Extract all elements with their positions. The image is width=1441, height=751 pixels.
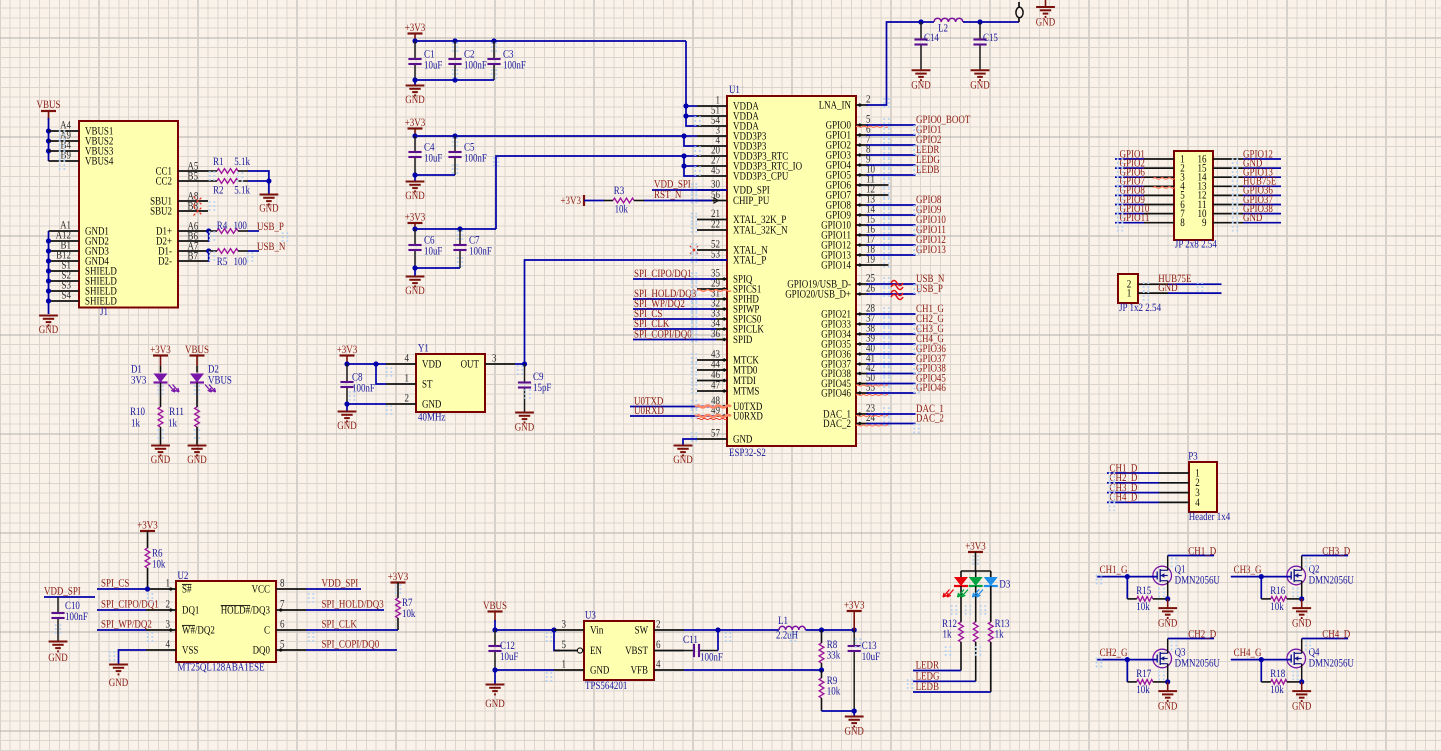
svg-text:CH4_G: CH4_G (1234, 647, 1262, 659)
svg-text:CH3_G: CH3_G (1234, 564, 1262, 576)
svg-text:D2-: D2- (158, 256, 172, 268)
oscillator Y1 body (416, 343, 485, 424)
svg-text:5.1k: 5.1k (234, 156, 250, 168)
resistor R10 (130, 383, 163, 446)
wire net HUB75E JP1x2 pin 2 (1127, 273, 1222, 290)
wire net CH2_G (867, 313, 944, 325)
svg-text:10k: 10k (827, 686, 841, 698)
wire net GPIO11 JP2x8 pin 8 (1115, 212, 1185, 229)
svg-text:DMN2056U: DMN2056U (1175, 658, 1220, 670)
wire net GPIO11 (867, 224, 946, 236)
svg-text:GND: GND (1292, 618, 1311, 630)
net label USB_N (257, 241, 285, 253)
svg-text:GPIO46: GPIO46 (916, 382, 946, 394)
svg-text:SPI_HOLD/DQ3: SPI_HOLD/DQ3 (322, 599, 385, 611)
svg-text:1: 1 (1127, 287, 1132, 299)
svg-text:R10: R10 (130, 406, 145, 418)
wire net GPIO46 (867, 382, 947, 394)
svg-text:SPI_CLK: SPI_CLK (322, 619, 357, 631)
svg-text:B9: B9 (61, 150, 72, 162)
ground GND below Q1 (1153, 556, 1220, 599)
squiggle GPIO45 (856, 385, 889, 386)
svg-text:VBUS4: VBUS4 (85, 156, 114, 168)
capacitor C2 (448, 41, 487, 80)
wire VDD3P3_RTC rail (496, 156, 684, 229)
svg-text:R17: R17 (1136, 668, 1151, 680)
resistor R5 (209, 249, 259, 268)
wire net GPIO1 JP2x8 pin 1 (1115, 148, 1185, 165)
squiggle GPIO46 (856, 394, 889, 395)
ground GND below C10 (48, 642, 67, 665)
svg-text:1: 1 (562, 658, 567, 670)
wire net GPIO12 JP2x8 pin 16 (1198, 148, 1282, 165)
compile squiggle SPICS1 (697, 290, 731, 292)
resistor R3 (584, 185, 712, 216)
svg-text:VBUS: VBUS (37, 99, 61, 111)
svg-text:GND: GND (405, 285, 424, 297)
svg-text:ST: ST (422, 379, 433, 391)
svg-text:VDD3P3_CPU: VDD3P3_CPU (733, 171, 788, 183)
wire +3V3 rail C4-C5 (412, 129, 684, 139)
svg-text:CHIP_PU: CHIP_PU (733, 195, 769, 207)
svg-text:Header 1x4: Header 1x4 (1189, 511, 1231, 523)
wire net SPI_COPI/DQ0 at U2 (306, 639, 397, 651)
svg-text:10uF: 10uF (500, 651, 518, 663)
wire VBUS bus to J1 VBUS pins (46, 118, 51, 161)
svg-text:CH1_D: CH1_D (1188, 546, 1216, 558)
wire net DAC_1 (867, 403, 944, 415)
svg-text:GND: GND (1036, 17, 1055, 29)
svg-text:GND: GND (1158, 618, 1177, 630)
capacitor C5 (448, 136, 487, 175)
svg-text:3: 3 (166, 619, 171, 631)
wire net CH4_D P3 pin 4 (1107, 492, 1200, 509)
power +3V3 above D3 (965, 541, 986, 572)
svg-text:U0RXD: U0RXD (733, 411, 763, 423)
svg-text:R2: R2 (213, 185, 224, 197)
wire output bottom rail (822, 708, 857, 713)
svg-text:GND: GND (48, 652, 67, 664)
svg-text:GND: GND (109, 677, 128, 689)
wire net SPI_COPI/DQ0 (633, 329, 716, 341)
svg-text:CH1_G: CH1_G (1100, 564, 1128, 576)
wire net GPIO10 JP2x8 pin 7 (1115, 203, 1185, 220)
svg-text:+3V3: +3V3 (844, 600, 865, 612)
svg-text:RST_N: RST_N (654, 189, 681, 201)
resistor D3 middle (973, 622, 978, 642)
net label VDD_SPI at C10 (44, 586, 95, 598)
wire net GND JP1x2 pin 1 (1127, 282, 1222, 299)
svg-text:+3V3: +3V3 (405, 212, 426, 224)
power +3V3 above R6 (137, 520, 158, 532)
pin decoration CHIP_PU (714, 198, 719, 203)
capacitor C8 (340, 364, 375, 404)
power +3V3 above C4 (405, 117, 426, 129)
svg-text:6: 6 (656, 639, 661, 651)
connector JP2x8 body (1174, 151, 1217, 250)
svg-text:JP 1x2 2.54: JP 1x2 2.54 (1119, 302, 1161, 314)
svg-text:100nF: 100nF (464, 153, 487, 165)
svg-text:LNA_IN: LNA_IN (819, 100, 851, 112)
svg-text:100nF: 100nF (464, 60, 487, 72)
ground GND below R2 (259, 181, 278, 215)
svg-text:R3: R3 (614, 185, 625, 197)
svg-text:J1: J1 (100, 306, 108, 318)
connector P3 body (1188, 451, 1230, 524)
svg-text:+3V3: +3V3 (561, 195, 582, 207)
capacitor C4 (408, 136, 442, 175)
svg-text:100: 100 (234, 220, 248, 232)
svg-text:10uF: 10uF (424, 153, 442, 165)
wire U1 unconnected pin y=195 (886, 194, 889, 196)
svg-text:10uF: 10uF (424, 246, 442, 258)
led D3 red (943, 571, 968, 622)
wire C6-C7 bottom rail (412, 265, 460, 270)
wire net GPIO9 (867, 204, 942, 216)
wire VDD3P3_RTC pins (681, 153, 697, 176)
svg-text:MTMS: MTMS (733, 386, 759, 398)
capacitor C3 (487, 41, 526, 80)
svg-text:GND: GND (1158, 282, 1177, 294)
ground GND below C12 (485, 670, 504, 710)
svg-text:SPI_COPI/DQ0: SPI_COPI/DQ0 (634, 329, 692, 341)
svg-text:1: 1 (166, 578, 171, 590)
wire net CH3_D P3 pin 3 (1107, 482, 1200, 499)
wire net CH3_G (867, 323, 944, 335)
marker dots clusters (55, 42, 1311, 689)
power +3V3 at R3 (561, 195, 585, 207)
ground GND top right (1036, 0, 1055, 29)
svg-text:XTAL_32K_N: XTAL_32K_N (733, 225, 788, 237)
squiggle DAC_1 (856, 415, 889, 416)
svg-text:R16: R16 (1270, 585, 1285, 597)
svg-text:CC2: CC2 (156, 176, 172, 188)
svg-text:HOLD#/DQ3: HOLD#/DQ3 (221, 605, 271, 617)
ic U2 MT25QL128 body (176, 570, 276, 674)
svg-text:VBUS: VBUS (208, 375, 232, 387)
capacitor C13 (848, 630, 881, 711)
ground GND below C4 (405, 175, 424, 202)
svg-text:+3V3: +3V3 (337, 344, 358, 356)
svg-text:SHIELD: SHIELD (85, 296, 117, 308)
svg-text:5.1k: 5.1k (234, 185, 250, 197)
capacitor C7 (453, 229, 492, 268)
svg-text:GND: GND (1243, 212, 1262, 224)
svg-text:VBUS: VBUS (483, 600, 507, 612)
svg-text:22: 22 (711, 219, 720, 231)
svg-text:4: 4 (656, 658, 661, 670)
wire C4-C5 bottom rail (412, 172, 455, 177)
wire net SPI_CS (633, 308, 716, 320)
svg-text:+3V3: +3V3 (405, 22, 426, 34)
svg-text:100nF: 100nF (700, 652, 723, 664)
wire net GPIO38 (867, 363, 947, 375)
resistor R2 (208, 178, 272, 196)
svg-text:+3V3: +3V3 (137, 520, 158, 532)
wire net CH1_D P3 pin 1 (1107, 462, 1200, 479)
svg-text:P3: P3 (1188, 451, 1198, 463)
svg-text:2: 2 (866, 94, 871, 106)
svg-text:CH4_D: CH4_D (1322, 629, 1350, 641)
svg-text:SPI_CIPO/DQ1: SPI_CIPO/DQ1 (634, 268, 692, 280)
net label U0RXD wire (630, 405, 716, 417)
resistor R12 (942, 618, 963, 642)
svg-text:10k: 10k (615, 204, 629, 216)
svg-text:GND: GND (1158, 701, 1177, 713)
svg-text:8: 8 (280, 578, 285, 590)
wire Y1 GND row (344, 401, 386, 406)
svg-text:47: 47 (711, 380, 720, 392)
wire net SPI_WP/DQ2 (633, 298, 716, 310)
connector JP1x2 body (1118, 274, 1161, 314)
svg-text:10uF: 10uF (862, 651, 880, 663)
svg-text:2: 2 (405, 393, 410, 405)
svg-text:+3V3: +3V3 (150, 344, 171, 356)
svg-text:SW: SW (635, 625, 649, 637)
svg-text:SPI_WP/DQ2: SPI_WP/DQ2 (101, 619, 152, 631)
svg-text:6: 6 (280, 619, 285, 631)
ground GND below C13 (845, 711, 864, 738)
svg-text:45: 45 (711, 165, 720, 177)
svg-text:100: 100 (234, 256, 248, 268)
svg-text:53: 53 (711, 249, 720, 261)
svg-text:CH3_D: CH3_D (1322, 546, 1350, 558)
svg-text:GND: GND (515, 422, 534, 434)
wire net SPI_HOLD/DQ3 at U2 (306, 599, 384, 611)
wire U1 GND pin (683, 439, 697, 445)
svg-text:8: 8 (1180, 217, 1185, 229)
wire XTAL_P from crystal (525, 260, 728, 364)
power +3V3 at C8 (337, 344, 358, 356)
wire net SPI_CIPO/DQ1 at U2 (97, 599, 159, 611)
svg-text:R15: R15 (1136, 585, 1151, 597)
svg-text:GND: GND (259, 203, 278, 215)
wire net DAC_2 (867, 413, 944, 425)
svg-text:GPIO14: GPIO14 (821, 260, 851, 272)
svg-text:VDD: VDD (422, 359, 441, 371)
wire net GPIO8 (867, 194, 942, 206)
connector J1 body (79, 121, 178, 318)
net label VDD_SPI at U1 (652, 179, 727, 191)
wire D- join (206, 248, 211, 261)
wire net GPIO2 JP2x8 pin 2 (1115, 157, 1185, 174)
svg-text:L1: L1 (778, 615, 788, 627)
capacitor C9 (518, 364, 552, 412)
wire net USB_P (867, 283, 943, 295)
led D3 blue (973, 571, 998, 622)
resistor R4 (209, 220, 259, 234)
svg-text:DMN2056U: DMN2056U (1309, 658, 1354, 670)
svg-text:C: C (264, 625, 270, 637)
svg-text:Y1: Y1 (418, 343, 429, 355)
resistor R13 (988, 618, 1009, 642)
wire net SPI_CLK at U2 (306, 619, 398, 631)
ground GND below C9 (515, 413, 534, 434)
svg-text:1: 1 (405, 373, 410, 385)
inductor L1 (776, 615, 805, 642)
svg-text:U2: U2 (178, 570, 189, 582)
wire J1 GND bus (46, 231, 51, 314)
svg-text:MT25QL128ABA1ESE: MT25QL128ABA1ESE (178, 662, 265, 674)
svg-text:5: 5 (562, 639, 567, 651)
svg-text:100nF: 100nF (65, 611, 88, 623)
wire net SPI_CLK (633, 318, 716, 330)
wire net GPIO38 JP2x8 pin 10 (1198, 203, 1282, 220)
wire net SPI_CIPO/DQ1 (633, 268, 716, 280)
wire net SPI_HOLD/DQ3 (633, 288, 716, 300)
svg-text:33k: 33k (827, 650, 841, 662)
pins U2 right (221, 578, 306, 657)
wire net SPI_WP/DQ2 at U2 (97, 619, 152, 631)
wire net GPIO7 JP2x8 pin 4 (1115, 176, 1185, 193)
svg-text:10k: 10k (1270, 684, 1284, 696)
no-ERC marker XTAL_N (690, 246, 698, 254)
svg-text:C15: C15 (983, 32, 998, 44)
svg-text:3: 3 (562, 618, 567, 630)
pins J1 right D1+ D2+ D1- D2- (156, 221, 208, 268)
wire net LEDB (867, 164, 940, 176)
wire +3V3 rail C1-C3 (412, 34, 686, 44)
wire D+ join (206, 228, 211, 241)
svg-text:2: 2 (656, 618, 661, 630)
svg-text:+3V3: +3V3 (405, 117, 426, 129)
svg-text:GND: GND (1292, 701, 1311, 713)
power VBUS above D2 (185, 344, 209, 366)
svg-text:+3V3: +3V3 (965, 541, 986, 553)
svg-text:C11: C11 (683, 634, 698, 646)
resistor R8 (819, 630, 840, 670)
diff pair marker USB_P (891, 291, 903, 300)
power +3V3 output (844, 600, 865, 631)
svg-text:R5: R5 (217, 256, 228, 268)
label D3 (999, 579, 1010, 591)
svg-text:D3: D3 (999, 579, 1010, 591)
net label USB_P (257, 221, 284, 233)
wire +3V3 rail C6-C7 (412, 223, 496, 232)
ground GND below C1 (405, 80, 424, 106)
wire net GPIO2 (867, 134, 942, 146)
svg-text:GND: GND (733, 434, 752, 446)
svg-text:10k: 10k (1270, 601, 1284, 613)
svg-text:GPIO13: GPIO13 (916, 244, 946, 256)
pins J1 right SBU1 SBU2 (150, 191, 208, 218)
wire net GPIO13 JP2x8 pin 14 (1198, 167, 1282, 184)
svg-text:SPID: SPID (733, 334, 752, 346)
svg-text:VDD_SPI: VDD_SPI (322, 578, 359, 590)
wire net GND JP2x8 pin 15 (1198, 157, 1282, 174)
svg-text:10k: 10k (1136, 684, 1150, 696)
wire net GPIO10 (867, 214, 947, 226)
led D2 (190, 364, 232, 393)
wire VBUS to U3 Vin (492, 620, 556, 633)
squiggle U0TXD (695, 406, 731, 408)
ground GND below R10 (151, 446, 170, 467)
wire +3V3 to Y1 VDD (344, 356, 386, 367)
svg-text:GND: GND (911, 80, 930, 92)
wire net GPIO12 (867, 234, 946, 246)
led D1 (131, 364, 179, 393)
wire L1 to output node (806, 627, 857, 632)
diff pair marker USB_N (891, 281, 903, 290)
svg-text:10k: 10k (1136, 601, 1150, 613)
svg-text:GND: GND (485, 698, 504, 710)
svg-text:4: 4 (405, 353, 410, 365)
capacitor C1 (408, 41, 442, 80)
svg-text:9: 9 (1202, 217, 1207, 229)
capacitor C11 (683, 634, 723, 664)
svg-text:100nF: 100nF (469, 246, 492, 258)
power +3V3 above D1 (150, 344, 171, 366)
svg-text:2.2uH: 2.2uH (776, 630, 798, 642)
no-ERC marker SBU2 (194, 207, 203, 216)
wire Y1 ST tie (376, 364, 386, 384)
svg-text:40MHz: 40MHz (418, 412, 445, 424)
svg-text:15pF: 15pF (533, 382, 551, 394)
wire net GPIO6 JP2x8 pin 3 (1115, 167, 1185, 184)
resistor R11 (168, 383, 199, 446)
svg-text:USB_N: USB_N (257, 241, 285, 253)
svg-text:W#/DQ2: W#/DQ2 (182, 625, 215, 637)
pins J1 left VBUS1-4 (49, 120, 114, 168)
ic U3 TPS564201 body (584, 610, 654, 693)
svg-text:SPI_COPI/DQ0: SPI_COPI/DQ0 (322, 639, 380, 651)
ground GND below C8 (337, 404, 356, 432)
wire net GPIO8 JP2x8 pin 5 (1115, 185, 1185, 202)
svg-text:DQ1: DQ1 (182, 605, 199, 617)
ground GND below C14 (911, 70, 930, 91)
resistor R1 (208, 156, 269, 181)
svg-text:U3: U3 (585, 610, 596, 622)
wire net VDD_SPI at U2 (306, 578, 361, 590)
svg-text:USB_P: USB_P (916, 283, 943, 295)
svg-text:GPIO46: GPIO46 (821, 388, 851, 400)
pins U1 right (785, 94, 886, 430)
svg-text:R11: R11 (169, 406, 184, 418)
net label RST_N (654, 189, 681, 201)
no-ERC marker SBU1 (194, 197, 203, 206)
power +3V3 above C6 (405, 212, 426, 224)
wire U3 EN tie (554, 630, 560, 651)
svg-text:LEDB: LEDB (916, 681, 939, 693)
svg-text:1k: 1k (131, 418, 140, 430)
svg-text:GPIO11: GPIO11 (1120, 212, 1150, 224)
resistor R9 (819, 670, 840, 711)
svg-text:VFB: VFB (631, 665, 648, 677)
wire net GPIO45 (867, 373, 947, 385)
svg-text:USB_P: USB_P (257, 221, 284, 233)
svg-text:CH2_D: CH2_D (1188, 629, 1216, 641)
svg-text:2: 2 (166, 599, 171, 611)
capacitor C15 (973, 22, 998, 70)
ground GND below Q4 (1287, 639, 1354, 682)
svg-text:100nF: 100nF (352, 383, 375, 395)
svg-text:GND: GND (337, 420, 356, 432)
ground GND below J1 (39, 316, 58, 337)
svg-text:GND: GND (39, 324, 58, 336)
svg-text:DMN2056U: DMN2056U (1309, 575, 1354, 587)
svg-text:DAC_2: DAC_2 (823, 418, 851, 430)
svg-text:SPI_CIPO/DQ1: SPI_CIPO/DQ1 (101, 599, 159, 611)
wire U1 unconnected pin y=185 (886, 184, 889, 186)
wire net USB_N (867, 273, 945, 285)
svg-text:EN: EN (590, 645, 602, 657)
squiggle DAC_2 (856, 425, 889, 426)
pins U1 left (697, 95, 802, 446)
power +3V3 above R7 (388, 571, 409, 583)
svg-text:VBST: VBST (625, 645, 648, 657)
svg-text:VDD_SPI: VDD_SPI (44, 586, 81, 598)
pins J1 left GND1-4 SHIELD (49, 220, 117, 308)
